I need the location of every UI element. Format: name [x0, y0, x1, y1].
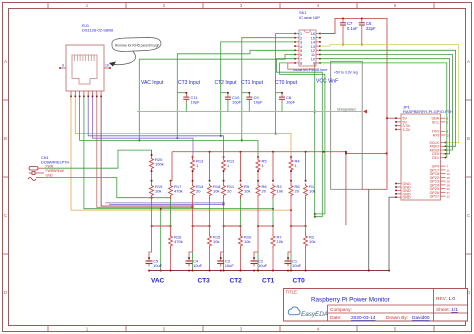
svg-text:8: 8	[300, 62, 302, 66]
svg-text:10k: 10k	[309, 239, 315, 244]
capacitor C5	[146, 257, 163, 268]
channel net CH0 green SK1 pin1 to CT0 section	[276, 34, 295, 134]
svg-text:9: 9	[62, 64, 64, 68]
resistor R19	[150, 170, 164, 199]
svg-text:22pF: 22pF	[366, 26, 376, 31]
svg-text:CT2: CT2	[230, 278, 243, 285]
VCC red rail	[172, 151, 388, 225]
RJ1 reference label	[82, 23, 113, 33]
connector CN1 barrel jack	[28, 167, 44, 181]
svg-text:B: B	[4, 136, 7, 141]
svg-text:20: 20	[295, 189, 300, 194]
svg-text:10uF: 10uF	[225, 263, 235, 268]
SK1 right pins 16-9	[311, 32, 321, 65]
right col green segments	[171, 198, 306, 227]
svg-text:Date:: Date:	[330, 315, 341, 321]
svg-text:Raspberry Pi Power Monitor: Raspberry Pi Power Monitor	[311, 297, 390, 304]
svg-text:David00: David00	[412, 315, 430, 321]
JP1 GND net down	[389, 197, 396, 270]
resistor R18	[208, 180, 222, 199]
JP1 right pins	[429, 117, 450, 199]
capacitor C11	[177, 92, 200, 105]
RJ45 wire bundle B orange long	[71, 97, 291, 210]
resistor R14	[191, 170, 205, 199]
svg-text:GP27: GP27	[430, 195, 439, 199]
svg-text:Remove for RJ45 pass-through: Remove for RJ45 pass-through	[115, 44, 160, 48]
capacitor C8	[276, 92, 296, 105]
svg-text:10pF: 10pF	[191, 100, 201, 105]
JP1 left GND pins	[395, 182, 411, 200]
capacitor C7	[340, 18, 358, 31]
RJ45 wire bundle A orange	[75, 97, 291, 155]
svg-text:IC seat 16P: IC seat 16P	[299, 15, 320, 20]
resistor R12	[222, 155, 236, 172]
C7 C6 bottom leads join	[342, 27, 362, 45]
title block texts	[286, 290, 459, 322]
svg-text:CT0 Input: CT0 Input	[275, 80, 298, 86]
svg-text:10k: 10k	[244, 239, 250, 244]
svg-text:10k: 10k	[277, 189, 283, 194]
svg-text:100k: 100k	[155, 162, 164, 167]
SK1 pin8-pin9 under-wire	[288, 63, 320, 69]
junction dot R19 bottom	[151, 197, 153, 199]
resistor R13	[191, 155, 205, 172]
svg-text:13: 13	[447, 195, 451, 199]
header JP1 raspberry pi gpio	[401, 114, 441, 200]
RJ45 wire bundle B blue long	[109, 204, 224, 206]
RJ45 wire bundle A green	[80, 97, 258, 155]
svg-text:2020-03-14: 2020-03-14	[351, 315, 376, 321]
resistor R15 lower	[208, 226, 222, 271]
resistor R11	[222, 170, 235, 199]
resistor R16 lower	[169, 226, 183, 271]
left column verticals down to caps	[193, 199, 292, 252]
svg-text:3.3V: 3.3V	[403, 128, 411, 132]
svg-text:VAC Input: VAC Input	[141, 80, 164, 86]
svg-text:CN1: CN1	[41, 156, 49, 160]
svg-text:470k: 470k	[174, 189, 183, 194]
svg-text:10uF: 10uF	[292, 263, 302, 268]
JP1 left power pins	[395, 117, 410, 132]
junction dots channel nets	[139, 133, 277, 142]
SPI net MOSI green	[320, 55, 453, 151]
SPI net CE1 green	[320, 63, 447, 158]
CN1 PWR green net to R20	[44, 150, 152, 168]
channel net CH2 green SK1 pin3 to CT2 section	[221, 42, 295, 136]
CN1 reference label	[41, 156, 70, 165]
svg-text:A: A	[467, 59, 470, 64]
svg-text:RASPBERRY-PI-GPIO-PTH: RASPBERRY-PI-GPIO-PTH	[403, 109, 453, 114]
resistor R10 lower	[239, 226, 253, 271]
svg-text:CT3: CT3	[198, 278, 211, 285]
SPI net SCLK yellow from SK1 to JP1	[320, 45, 459, 143]
capacitor C10	[221, 92, 242, 105]
capacitor C1	[285, 252, 302, 268]
svg-text:VCC VinF: VCC VinF	[316, 79, 338, 85]
SK1 reference label	[299, 10, 320, 20]
VCC green bus pair	[276, 59, 322, 217]
svg-text:20: 20	[196, 189, 201, 194]
svg-text:CT2 Input: CT2 Input	[215, 80, 238, 86]
ground bottom rail	[148, 270, 390, 272]
capacitor C6	[359, 18, 376, 31]
RJ45 wire bundle B lightred long	[97, 97, 193, 207]
svg-text:GND: GND	[46, 174, 54, 178]
channel net CH4 green SK1 pin5 to CT3 section	[177, 50, 295, 138]
resistor R17	[169, 180, 183, 199]
svg-text:Unregulated: Unregulated	[337, 107, 356, 111]
resistor R7 lower	[271, 226, 283, 271]
CN1 pin names	[46, 164, 66, 177]
RJ45 wire bundle B green long	[84, 97, 273, 209]
resistor R8	[289, 170, 300, 199]
channel net CH5 green SK1 pin6 to VAC section	[139, 55, 295, 141]
svg-text:DS1128-02-S80B: DS1128-02-S80B	[82, 28, 113, 33]
svg-text:+5V to 3.3V reg: +5V to 3.3V reg	[334, 71, 358, 75]
svg-text:PWRBREAK: PWRBREAK	[46, 169, 66, 173]
VDD red net from SK1 pin16 to JP1 5V	[320, 18, 396, 190]
connector RJ1 RJ45 jack	[66, 45, 104, 91]
RJ45 wire bundle A purple	[93, 97, 194, 155]
svg-text:470k: 470k	[174, 239, 183, 244]
resistor R9	[239, 180, 251, 199]
capacitor C2	[251, 252, 268, 268]
svg-text:10k: 10k	[155, 189, 161, 194]
resistor R20	[150, 150, 164, 170]
svg-text:CT0: CT0	[293, 278, 306, 285]
resistor R3	[271, 180, 283, 199]
svg-text:10k: 10k	[309, 189, 315, 194]
resistor R2 lower	[304, 226, 316, 271]
resistor R4	[289, 155, 300, 172]
svg-text:VAC: VAC	[151, 278, 165, 285]
capacitor C9	[242, 92, 263, 105]
svg-text:RXI: RXI	[433, 133, 439, 137]
svg-text:Sheet: 1/1: Sheet: 1/1	[436, 307, 458, 313]
SPI net MISO green	[320, 50, 456, 146]
svg-text:SCL: SCL	[432, 120, 439, 124]
callout note bubble	[109, 38, 161, 67]
resistor R5	[256, 155, 267, 172]
capacitor C4	[186, 252, 203, 268]
svg-text:CT3 Input: CT3 Input	[178, 80, 201, 86]
SPI net CE0 green	[320, 59, 450, 154]
svg-text:10uF: 10uF	[258, 263, 268, 268]
svg-text:10: 10	[105, 64, 109, 68]
svg-text:10k: 10k	[277, 239, 283, 244]
svg-text:10k: 10k	[244, 189, 250, 194]
resistor R1	[304, 180, 316, 199]
RJ45 wire bundle A blue	[88, 97, 223, 155]
CN1 GND green net to R19 bottom	[44, 178, 171, 198]
svg-text:install MCP3008 here: install MCP3008 here	[293, 68, 327, 72]
svg-text:20: 20	[262, 189, 267, 194]
channel net CH1 green SK1 pin2 to CT1 section	[242, 38, 295, 141]
svg-text:Company:: Company:	[330, 307, 352, 313]
svg-text:10uF: 10uF	[193, 263, 203, 268]
svg-text:EasyEDA: EasyEDA	[301, 311, 328, 318]
svg-text:10pF: 10pF	[286, 100, 296, 105]
svg-text:10k: 10k	[213, 239, 219, 244]
regulator block box	[331, 61, 363, 189]
svg-text:10uF: 10uF	[153, 263, 163, 268]
svg-text:TITLE:: TITLE:	[286, 290, 299, 295]
svg-text:GND: GND	[403, 196, 412, 200]
svg-text:0.1uF: 0.1uF	[347, 26, 358, 31]
analog ground rail gray	[137, 102, 367, 114]
svg-text:10pF: 10pF	[254, 100, 264, 105]
EasyEDA logo	[288, 307, 328, 318]
RJ1 bottom pins 1-8	[70, 91, 102, 97]
GND dark wire right side	[368, 189, 370, 270]
svg-text:20: 20	[227, 189, 232, 194]
title block	[284, 289, 468, 322]
RJ45 wire bundle B darkred long	[101, 97, 192, 206]
svg-text:10k: 10k	[213, 189, 219, 194]
resistor R6	[256, 170, 267, 199]
IC socket SK1	[299, 30, 316, 66]
svg-text:REV: 1.0: REV: 1.0	[436, 296, 455, 302]
svg-text:PWR: PWR	[46, 164, 54, 168]
VAC sleeve green descender	[160, 209, 162, 271]
VAC column vertical	[149, 199, 152, 258]
svg-text:CT1 Input: CT1 Input	[241, 80, 264, 86]
SK1 left pins 1-8	[294, 32, 302, 65]
capacitor C3	[217, 252, 234, 268]
svg-text:A: A	[4, 59, 7, 64]
RJ45 wire bundle B purple long	[105, 202, 224, 204]
svg-text:B: B	[467, 136, 470, 141]
RJ1 right pin 10	[104, 64, 111, 69]
svg-text:CT1: CT1	[262, 278, 275, 285]
JP1 reference label	[403, 105, 453, 115]
group bridges	[152, 225, 306, 227]
RJ1 left pin 9	[59, 64, 66, 69]
svg-text:Drawn By:: Drawn By:	[386, 315, 408, 321]
svg-text:10pF: 10pF	[232, 100, 242, 105]
svg-text:CE1: CE1	[432, 156, 439, 160]
